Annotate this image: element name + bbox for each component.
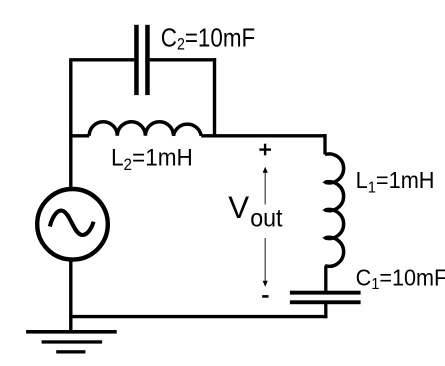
- node +: [259, 144, 271, 156]
- arrow Vout: [263, 167, 268, 287]
- wire: [201, 134, 326, 137]
- wire: [69, 60, 72, 188]
- wire: [324, 266, 327, 291]
- voltage source V1: [37, 189, 108, 260]
- svg-text:L2=1mH: L2=1mH: [111, 144, 193, 174]
- svg-text:out: out: [250, 205, 283, 233]
- capacitor C2: [134, 25, 150, 95]
- svg-text:V: V: [228, 190, 249, 225]
- wire: [150, 58, 217, 61]
- wire: [213, 58, 216, 137]
- inductor L2: [89, 122, 201, 136]
- wire: [69, 58, 134, 61]
- wire: [69, 315, 327, 318]
- svg-text:L1=1mH: L1=1mH: [356, 167, 435, 196]
- inductor L1: [325, 154, 344, 266]
- ground: [26, 330, 117, 354]
- wire: [324, 304, 327, 318]
- svg-text:C2=10mF: C2=10mF: [161, 24, 255, 54]
- wire: [69, 261, 72, 332]
- voltage source sine: [50, 211, 94, 235]
- svg-text:C1=10mF: C1=10mF: [356, 265, 445, 294]
- wire: [69, 134, 89, 137]
- node -: [262, 295, 268, 298]
- capacitor C1: [290, 291, 361, 304]
- wire: [323, 134, 326, 154]
- inductor L1 cusp points: [322, 180, 326, 240]
